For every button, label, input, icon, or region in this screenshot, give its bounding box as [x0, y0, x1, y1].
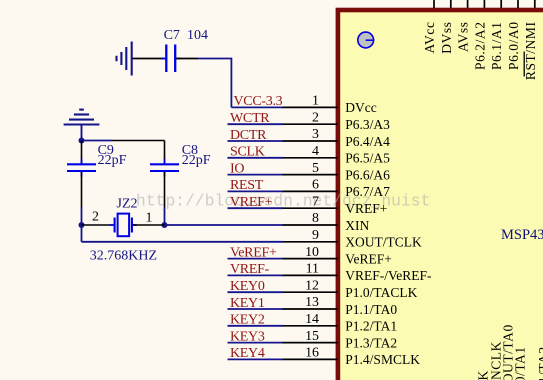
junction node crystal pin 1 — [162, 222, 168, 228]
svg-text:MSP430F149: MSP430F149 — [501, 227, 543, 243]
svg-text:DVcc: DVcc — [345, 100, 376, 115]
svg-text:P2.3/CA0/TA1: P2.3/CA0/TA1 — [513, 346, 528, 380]
svg-text:VeREF+: VeREF+ — [345, 251, 392, 266]
svg-text:P6.3/A3: P6.3/A3 — [345, 117, 390, 132]
svg-text:104: 104 — [187, 28, 208, 43]
svg-text:P6.1/A1: P6.1/A1 — [489, 22, 504, 70]
net label VREF+ — [230, 195, 273, 210]
svg-text:P1.1/TA0: P1.1/TA0 — [345, 302, 397, 317]
bottom pin P2.2/CAOUT/TA0 — [501, 324, 516, 380]
svg-text:REST: REST — [230, 178, 264, 193]
pin 10 — [282, 245, 392, 267]
wire stub pin 3 — [228, 140, 283, 142]
earth ground above crystal circuit — [64, 110, 100, 141]
pin 13 — [282, 295, 397, 317]
capacitor C8 — [150, 141, 179, 208]
wire net VCC-3.3 to pin 1 — [231, 106, 282, 108]
net label DCTR — [230, 128, 267, 143]
svg-text:KEY3: KEY3 — [230, 329, 265, 344]
wire stub pin 2 — [228, 123, 283, 125]
svg-text:P6.7/A7: P6.7/A7 — [345, 184, 390, 199]
top pin RST/NMI — [523, 0, 538, 80]
svg-text:WCTR: WCTR — [230, 111, 270, 126]
pin 8 — [282, 211, 370, 233]
top pin P6.2/A2 — [472, 0, 487, 70]
svg-text:8: 8 — [312, 211, 319, 226]
pin 14 — [282, 312, 397, 334]
svg-text:P1.4/SMCLK: P1.4/SMCLK — [345, 352, 420, 367]
op-amp U1 MSP430 IC body — [338, 10, 543, 380]
wire stub pin 6 — [228, 190, 283, 192]
net label SCLK — [230, 145, 265, 160]
pin 6 — [282, 178, 390, 200]
svg-text:XOUT/TCLK: XOUT/TCLK — [345, 235, 422, 250]
pin 7 — [282, 194, 387, 216]
wire stub pin 15 — [228, 342, 283, 344]
net label IO — [230, 161, 244, 176]
label C9 — [98, 143, 114, 158]
svg-text:P6.5/A5: P6.5/A5 — [345, 151, 390, 166]
junction node crystal pin 2 — [79, 222, 85, 228]
pin 4 — [282, 144, 390, 166]
svg-text:DVss: DVss — [439, 22, 454, 54]
wire stub pin 4 — [228, 157, 283, 159]
svg-text:P1.2/TA1: P1.2/TA1 — [345, 319, 397, 334]
top pin AVcc — [422, 0, 437, 53]
junction node at ground — [79, 138, 85, 144]
wire top of loop (C9 to C8) — [82, 140, 165, 142]
net label VREF- — [230, 262, 270, 277]
svg-text:C7: C7 — [164, 28, 180, 43]
svg-text:AVss: AVss — [456, 22, 471, 52]
svg-text:9: 9 — [312, 228, 319, 243]
wire stub pin 7 — [228, 207, 283, 209]
label C8 — [182, 143, 198, 158]
crystal pin number 2 — [92, 210, 99, 225]
svg-text:KEY4: KEY4 — [230, 346, 265, 361]
top pin P6.0/A0 — [506, 0, 521, 70]
svg-text:22pF: 22pF — [98, 153, 127, 168]
bottom pin P2.0/ACLK — [476, 370, 491, 380]
svg-text:15: 15 — [305, 329, 319, 344]
svg-text:RST/NMI: RST/NMI — [523, 22, 538, 81]
svg-text:P6.2/A2: P6.2/A2 — [472, 22, 487, 70]
pin 3 — [282, 127, 390, 149]
net label KEY2 — [230, 313, 265, 328]
top pin DVss — [439, 0, 454, 54]
svg-text:2: 2 — [92, 210, 99, 225]
ground (bar style) for C7 — [117, 42, 132, 76]
value 22pF (C8) — [182, 153, 211, 168]
svg-text:32.768KHZ: 32.768KHZ — [90, 249, 157, 264]
svg-text:VREF+: VREF+ — [345, 201, 387, 216]
svg-text:3: 3 — [312, 127, 319, 142]
net label KEY4 — [230, 346, 265, 361]
bottom pin P2.3/CA0/TA1 — [513, 346, 528, 380]
net label VCC-3.3 — [234, 94, 283, 109]
wire XIN from crystal to pin 8 — [165, 224, 283, 226]
pin 5 — [282, 161, 390, 183]
svg-text:XIN: XIN — [345, 218, 369, 233]
svg-text:2: 2 — [312, 110, 319, 125]
label JZ2 — [117, 197, 138, 212]
wire stub pin 12 — [228, 291, 283, 293]
svg-text:P6.0/A0: P6.0/A0 — [506, 22, 521, 70]
svg-text:7: 7 — [312, 194, 319, 209]
pin 9 — [282, 228, 422, 250]
top pin AVss — [456, 0, 471, 52]
svg-text:5: 5 — [312, 161, 319, 176]
wire stub pin 13 — [228, 308, 283, 310]
wire left side of loop down to XOUT row — [81, 207, 83, 242]
svg-text:P1.0/TACLK: P1.0/TACLK — [345, 285, 417, 300]
svg-text:P6.6/A6: P6.6/A6 — [345, 167, 390, 182]
wire stub pin 16 — [228, 358, 283, 360]
svg-text:22pF: 22pF — [182, 153, 211, 168]
svg-text:DCTR: DCTR — [230, 128, 267, 143]
value 104 — [187, 28, 208, 43]
svg-text:JZ2: JZ2 — [117, 197, 138, 212]
crystal pin number 1 — [146, 211, 153, 226]
net label REST — [230, 178, 264, 193]
svg-text:4: 4 — [312, 144, 319, 159]
pin 11 — [282, 262, 432, 284]
svg-text:16: 16 — [305, 346, 319, 361]
top pin P6.1/A1 — [489, 0, 504, 70]
svg-text:1: 1 — [312, 94, 319, 109]
svg-text:11: 11 — [306, 262, 319, 277]
svg-text:VREF+: VREF+ — [230, 195, 273, 210]
capacitor C7 plates — [161, 45, 181, 73]
net label KEY3 — [230, 329, 265, 344]
net label WCTR — [230, 111, 270, 126]
svg-text:6: 6 — [312, 178, 319, 193]
svg-text:VCC-3.3: VCC-3.3 — [234, 94, 283, 109]
lead ground to C7 — [133, 58, 166, 60]
svg-text:KEY0: KEY0 — [230, 279, 265, 294]
wire stub pin 5 — [228, 174, 283, 176]
svg-text:VeREF+: VeREF+ — [230, 245, 277, 260]
svg-text:10: 10 — [305, 245, 319, 260]
wire stub pin 11 — [228, 274, 283, 276]
wire stub pin 14 — [228, 325, 283, 327]
pin 16 — [282, 346, 420, 368]
label C7 — [164, 28, 180, 43]
wire C7 to VCC-3.3 pin 1 — [198, 59, 232, 108]
bottom pin P2.4/CA1/TA2 — [536, 346, 543, 380]
svg-text:13: 13 — [305, 295, 319, 310]
crystal JZ2 — [82, 214, 165, 237]
wire XOUT from crystal circuit to pin 9 — [82, 241, 283, 243]
lead C7 right — [176, 58, 198, 60]
value 22pF (C9) — [98, 153, 127, 168]
net label VeREF+ — [230, 245, 277, 260]
svg-text:KEY2: KEY2 — [230, 313, 265, 328]
svg-text:VREF-: VREF- — [230, 262, 270, 277]
pin 15 — [282, 329, 397, 351]
pin 2 — [282, 110, 390, 132]
svg-text:KEY1: KEY1 — [230, 296, 265, 311]
svg-text:1: 1 — [146, 211, 153, 226]
svg-text:VREF-/VeREF-: VREF-/VeREF- — [345, 268, 432, 283]
capacitor C9 — [67, 141, 96, 208]
svg-text:P2.4/CA1/TA2: P2.4/CA1/TA2 — [536, 346, 543, 380]
IC clock marker circle — [358, 32, 374, 48]
svg-text:SCLK: SCLK — [230, 145, 265, 160]
net label KEY1 — [230, 296, 265, 311]
bottom pin P2.1/TAINCLK — [489, 341, 504, 380]
net label KEY0 — [230, 279, 265, 294]
svg-text:12: 12 — [305, 278, 319, 293]
svg-text:P6.4/A4: P6.4/A4 — [345, 134, 390, 149]
pin 12 — [282, 278, 418, 300]
wire stub pin 10 — [228, 258, 283, 260]
value 32.768KHZ — [90, 249, 157, 264]
pin 1 — [282, 94, 377, 116]
svg-text:AVcc: AVcc — [422, 22, 437, 54]
wire C8 bottom to crystal pin 1 — [164, 207, 166, 225]
svg-text:P1.3/TA2: P1.3/TA2 — [345, 335, 397, 350]
svg-text:14: 14 — [305, 312, 319, 327]
svg-text:IO: IO — [230, 161, 244, 176]
